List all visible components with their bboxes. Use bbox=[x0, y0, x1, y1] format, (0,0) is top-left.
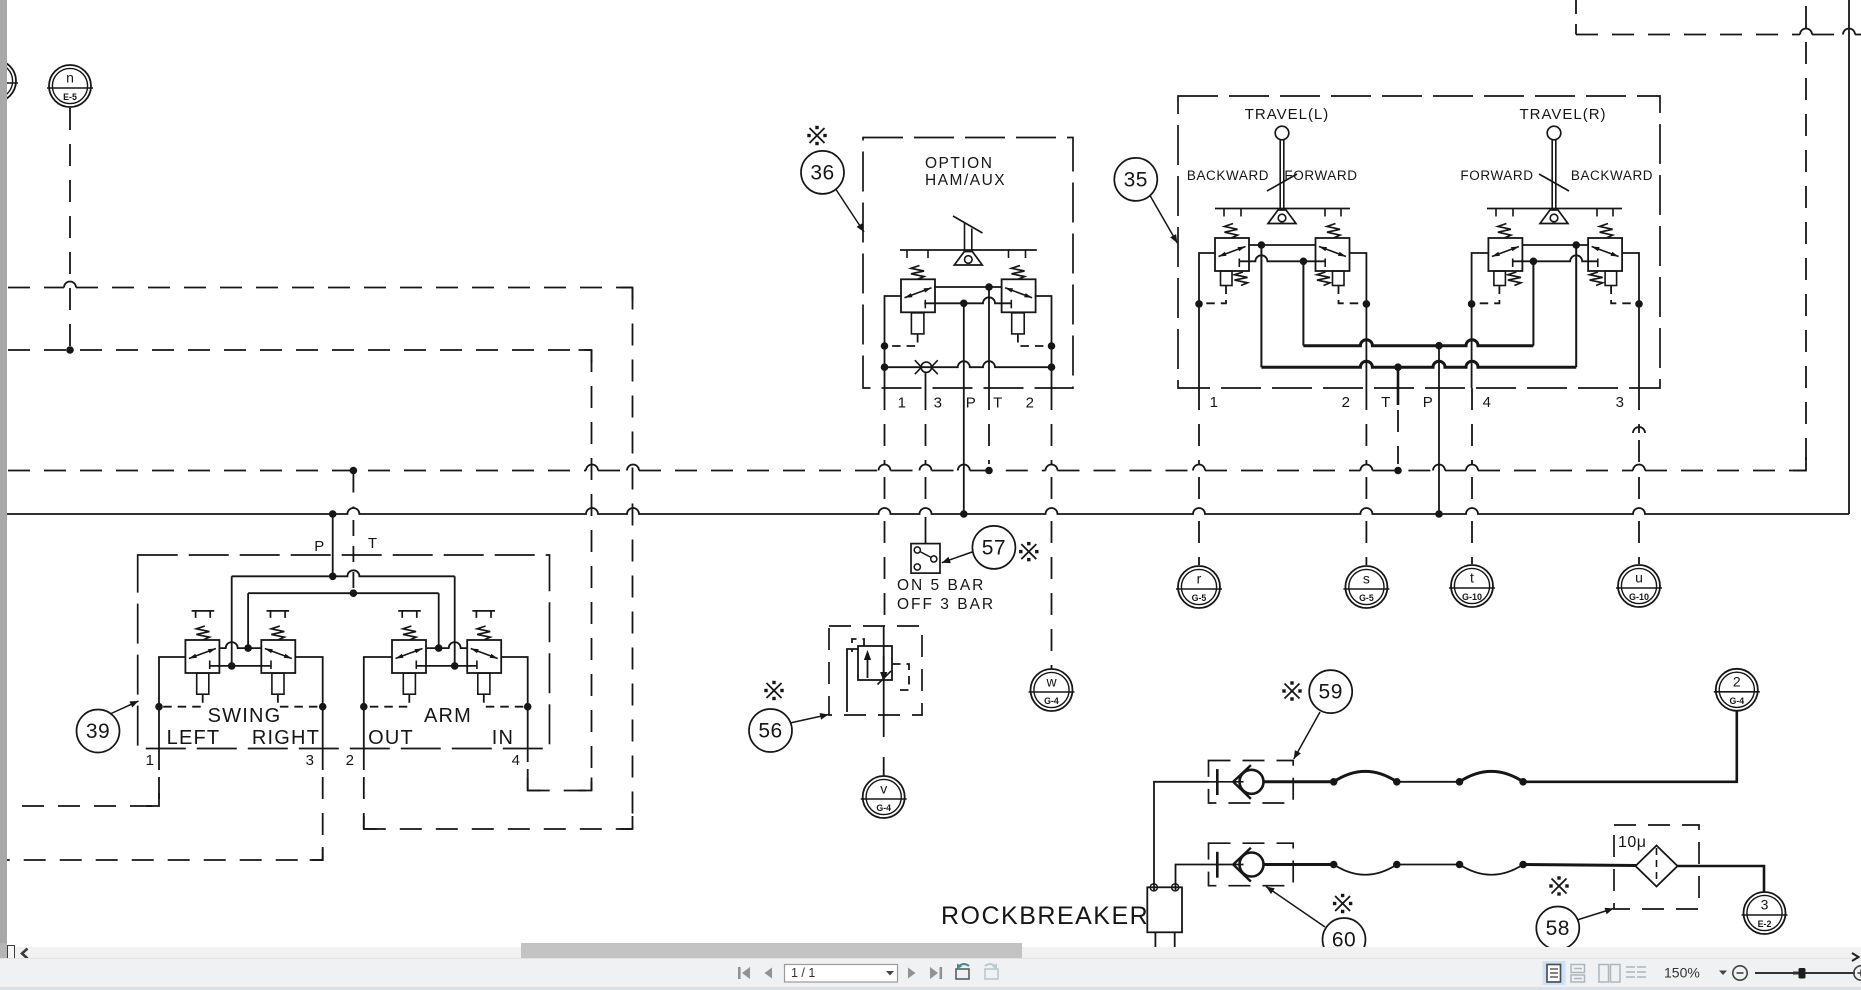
corner elbows on dashed bends bbox=[620, 288, 633, 301]
reducing valve (pair left) bbox=[1215, 238, 1249, 271]
svg-text:39: 39 bbox=[86, 720, 110, 743]
svg-text:10μ: 10μ bbox=[1618, 834, 1647, 851]
wire: dashed link y=829 to ARM port 2 bbox=[364, 828, 633, 830]
connector r / G-5 bbox=[1176, 566, 1222, 608]
wire: port1 dashed drop bbox=[884, 388, 886, 464]
odd hop on port3 drop bbox=[1633, 388, 1645, 433]
reference mark for 56 bbox=[767, 683, 782, 698]
svg-text:t: t bbox=[1470, 570, 1474, 586]
svg-text:4: 4 bbox=[512, 752, 521, 769]
svg-text:G-5: G-5 bbox=[1192, 593, 1207, 603]
wire: T leg left bbox=[247, 593, 249, 648]
hose arc bbox=[1334, 771, 1397, 781]
toolbar: two page layout icon bbox=[1599, 965, 1620, 983]
svg-text:59: 59 bbox=[1319, 681, 1343, 704]
filter diamond bbox=[1636, 846, 1678, 887]
reducing valve (pair right) bbox=[467, 640, 501, 673]
reducing valve (pair right) bbox=[1588, 238, 1622, 271]
hose arc bbox=[1334, 865, 1397, 875]
reducing valve unit 56 (dashed enclosure) bbox=[829, 626, 922, 715]
connector w / G-4 bbox=[1029, 669, 1075, 711]
wire: solid bus riser to top edge x=1849 bbox=[1848, 0, 1850, 514]
reference mark for 58 bbox=[1552, 879, 1567, 894]
svg-text:1 / 1: 1 / 1 bbox=[791, 966, 815, 980]
hose line upper (to connector 2/G-4) bbox=[1264, 780, 1334, 783]
wire: dashed stub x=1576 top bbox=[1575, 0, 1577, 35]
wire: dashed pilot-drain bus y=470.5 bbox=[8, 470, 586, 472]
connector v / G-4 bbox=[861, 776, 907, 818]
svg-text:v: v bbox=[880, 781, 887, 797]
svg-text:3: 3 bbox=[306, 752, 315, 769]
svg-text:ON 5 BAR: ON 5 BAR bbox=[897, 577, 985, 594]
reducing valve (pair left) bbox=[185, 640, 219, 673]
reference mark for 60 bbox=[1335, 896, 1350, 911]
viewer chrome: scrollbar corner block bbox=[0, 943, 7, 958]
reference mark for 57 bbox=[1021, 544, 1036, 559]
option check valve line bbox=[885, 361, 1052, 367]
svg-text:56: 56 bbox=[758, 720, 782, 743]
leader 35 bbox=[1150, 196, 1177, 244]
svg-text:TRAVEL(R): TRAVEL(R) bbox=[1519, 106, 1606, 123]
leader 36 bbox=[836, 190, 864, 233]
option right reducing valve bbox=[1012, 266, 1025, 280]
wire: dashed link y=790.5 to ARM port 4 bbox=[528, 790, 592, 792]
wire: top dashed line y=34.5 (hops risers) bbox=[1576, 34, 1800, 36]
svg-text:T: T bbox=[1381, 394, 1391, 411]
wire: filter outlet to connector 3 bbox=[1678, 866, 1765, 892]
callout circle 57 bbox=[972, 526, 1015, 569]
option valve plungers and pilot lines bbox=[911, 313, 924, 334]
wire: drop to valve 56 bbox=[884, 521, 886, 626]
svg-text:G-4: G-4 bbox=[1729, 696, 1744, 706]
svg-text:2: 2 bbox=[1026, 395, 1035, 412]
svg-text:G-4: G-4 bbox=[1044, 696, 1059, 706]
viewer chrome: bottom toolbar bbox=[0, 958, 1861, 988]
reference mark for 36 bbox=[810, 128, 825, 143]
valve 56 left feedback loop bbox=[847, 649, 858, 712]
travel T gallery (thick) bbox=[1260, 245, 1262, 367]
option interconnect (T) line with junction bbox=[934, 286, 1002, 288]
svg-text:OFF 3 BAR: OFF 3 BAR bbox=[897, 596, 995, 613]
svg-text:RIGHT: RIGHT bbox=[252, 727, 320, 749]
hose arc bbox=[1460, 771, 1524, 781]
leader 59 bbox=[1294, 712, 1320, 759]
svg-text:ROCKBREAKER: ROCKBREAKER bbox=[941, 902, 1149, 930]
wire: travel T dashed drop to bus dot bbox=[1397, 410, 1399, 464]
wire H1: dashed line to swing/arm port2 riser (hop over n line) bbox=[8, 287, 64, 289]
rockbreaker chisel line 1 bbox=[1154, 932, 1156, 947]
wire: solid pilot-pressure bus y=514 bbox=[7, 508, 1849, 514]
svg-text:2: 2 bbox=[1733, 673, 1741, 689]
callout circle 39 bbox=[77, 710, 120, 753]
callout circle 60 bbox=[1323, 918, 1366, 961]
callout circle 36 bbox=[801, 151, 844, 194]
svg-text:1: 1 bbox=[1210, 394, 1219, 411]
toolbar: zoom slider bbox=[1755, 972, 1855, 974]
toolbar: single page layout (active) bbox=[1543, 961, 1566, 985]
option stub (P) line with hop over T riser bbox=[924, 297, 1011, 303]
svg-text:35: 35 bbox=[1124, 168, 1148, 191]
wire: port3 dashed route to left bbox=[7, 777, 323, 860]
wire: drop to pressure switch 57 bbox=[925, 517, 927, 544]
svg-text:57: 57 bbox=[982, 536, 1006, 559]
reference mark for 59 bbox=[1285, 684, 1300, 699]
svg-text:TRAVEL(L): TRAVEL(L) bbox=[1245, 106, 1330, 123]
wire: option port1 drop bbox=[885, 296, 902, 388]
wire: port3 drop bbox=[322, 707, 324, 770]
viewer chrome: small page box at left of scrollbar bbox=[7, 945, 15, 964]
svg-text:P: P bbox=[1423, 394, 1434, 411]
leader 56 bbox=[790, 715, 829, 724]
toolbar: two page continuous icon bbox=[1626, 967, 1646, 977]
wire: port4 drop bbox=[527, 707, 529, 762]
svg-text:G-4: G-4 bbox=[876, 803, 891, 813]
toolbar: page number box bbox=[785, 965, 898, 983]
joystick TRAVEL(R) bbox=[1487, 208, 1622, 210]
connector circle (partial, left edge) bbox=[0, 60, 18, 102]
filter 58 (10u) bbox=[1614, 825, 1699, 909]
wire: P leg left bbox=[231, 576, 233, 666]
valve 56 body bbox=[858, 646, 892, 680]
callout circle 56 bbox=[749, 709, 792, 752]
wire: 56 to connector v bbox=[883, 715, 885, 750]
leader 58 bbox=[1577, 909, 1614, 921]
svg-text:SWING: SWING bbox=[208, 705, 282, 727]
svg-text:LEFT: LEFT bbox=[167, 727, 221, 749]
leader 60 bbox=[1266, 887, 1325, 928]
quick coupler 59 bbox=[1209, 761, 1294, 804]
viewer chrome: collapse mark top-right of toolbar bbox=[1850, 952, 1861, 962]
wire H2: dashed line (dot at n drop) to riser x=591.5 bbox=[8, 349, 592, 351]
svg-text:IN: IN bbox=[492, 727, 514, 749]
viewer chrome: scrollbar thumb bbox=[521, 943, 1022, 959]
toolbar: previous page button bbox=[765, 968, 773, 979]
wire: to connector 2 bbox=[1523, 711, 1737, 782]
wire: hose to filter bbox=[1523, 865, 1636, 866]
pilot line right valve bbox=[1018, 334, 1052, 346]
toolbar: last page button bbox=[930, 967, 942, 979]
wire: option port3 stub bbox=[925, 372, 927, 388]
svg-text:G-10: G-10 bbox=[1629, 592, 1649, 602]
slash across valve 56 bbox=[878, 671, 892, 685]
toolbar: next page button bbox=[908, 968, 916, 979]
wire: supply to coupler 60 bbox=[1176, 865, 1209, 891]
viewer chrome: collapse chevron bbox=[19, 947, 30, 960]
reducing valve (pair right) bbox=[261, 640, 295, 673]
wire: T leg right bbox=[438, 593, 440, 648]
rockbreaker body bbox=[1147, 887, 1182, 932]
connector u / G-10 bbox=[1616, 565, 1662, 607]
svg-text:150%: 150% bbox=[1664, 965, 1700, 981]
wire: dashed riser x=1806 bbox=[1805, 6, 1807, 471]
svg-text:BACKWARD: BACKWARD bbox=[1571, 168, 1653, 183]
connector 2 / G-4 bbox=[1714, 669, 1760, 711]
svg-text:3: 3 bbox=[1616, 394, 1625, 411]
svg-text:1: 1 bbox=[146, 752, 155, 769]
callout circle 58 bbox=[1536, 907, 1579, 950]
wire: riser x=591.5 from H2 down bbox=[591, 350, 593, 791]
valve 56 right pilot bbox=[892, 664, 909, 690]
svg-text:T: T bbox=[993, 395, 1003, 412]
svg-text:OUT: OUT bbox=[368, 727, 414, 749]
reducing valve (pair right) bbox=[1316, 238, 1350, 271]
callout circle 59 bbox=[1309, 670, 1352, 713]
toolbar: zoom out button bbox=[1733, 966, 1747, 980]
svg-text:E-5: E-5 bbox=[63, 92, 77, 102]
rockbreaker chisel line 2 bbox=[1174, 932, 1176, 947]
svg-text:s: s bbox=[1363, 571, 1370, 587]
P manifold bbox=[232, 570, 455, 576]
pressure switch 57 bbox=[911, 544, 940, 574]
viewer chrome: bottom status strip bbox=[0, 987, 1861, 990]
svg-text:BACKWARD: BACKWARD bbox=[1187, 168, 1269, 183]
wire: riser x=632.5 from H1 down bbox=[632, 288, 634, 830]
wire: port1 drop bbox=[158, 707, 160, 770]
svg-text:r: r bbox=[1197, 571, 1202, 587]
quick coupler 60 bbox=[1209, 843, 1294, 886]
viewer chrome: left gutter strip bbox=[0, 0, 7, 944]
svg-text:ARM: ARM bbox=[424, 705, 472, 727]
valve 56 internal arrows bbox=[867, 654, 869, 678]
toolbar: rotate ccw icon bbox=[956, 964, 969, 980]
reducing valve (pair left) bbox=[1488, 238, 1522, 271]
pilot valve block 35: TRAVEL dashed enclosure bbox=[1178, 96, 1660, 388]
wire: travel port1 dashed drop bbox=[1198, 388, 1200, 464]
svg-text:T: T bbox=[368, 535, 378, 552]
connector 3 / E-2 bbox=[1742, 892, 1788, 934]
svg-text:P: P bbox=[314, 538, 325, 555]
wire: P drop from solid bus into block bbox=[332, 514, 334, 576]
wire: T drop from dashed bus bbox=[352, 471, 354, 509]
T manifold bbox=[248, 592, 439, 594]
svg-text:w: w bbox=[1045, 674, 1057, 690]
wire: travel port3 dashed drop bbox=[1638, 440, 1640, 464]
svg-text:58: 58 bbox=[1546, 917, 1570, 940]
svg-text:HAM/AUX: HAM/AUX bbox=[925, 172, 1006, 189]
wire: T dashed drop to bus dot bbox=[988, 388, 990, 464]
reducing valve (pair left) bbox=[392, 640, 426, 673]
wire: option P drop to solid bus bbox=[963, 303, 965, 514]
svg-text:OPTION: OPTION bbox=[925, 155, 993, 172]
svg-text:P: P bbox=[966, 395, 977, 412]
wire: port2 dashed drop bbox=[1051, 388, 1053, 464]
svg-text:1: 1 bbox=[898, 395, 907, 412]
wire: option port2 drop bbox=[1035, 296, 1052, 388]
svg-text:3: 3 bbox=[934, 395, 943, 412]
toolbar: continuous layout icon bbox=[1571, 965, 1585, 983]
wire: port4 dashed drop to y=790.5 link bbox=[527, 769, 529, 791]
toolbar: zoom in button (clipped) bbox=[1854, 966, 1861, 980]
hose line lower (to filter 58) bbox=[1264, 863, 1334, 866]
connector n / E-5 bbox=[47, 65, 93, 107]
wire: drop to connector w bbox=[1051, 521, 1053, 669]
joystick TRAVEL(L) bbox=[1215, 208, 1350, 210]
svg-text:E-2: E-2 bbox=[1758, 919, 1772, 929]
wire: travel port2 dashed drop bbox=[1365, 388, 1367, 464]
leader 57 bbox=[942, 552, 974, 563]
wire: port2 dashed drop to y=829 link bbox=[363, 777, 365, 829]
svg-text:2: 2 bbox=[1342, 394, 1351, 411]
wire: supply to coupler 59 bbox=[1154, 782, 1209, 890]
wire: travel P drop to solid bus bbox=[1438, 346, 1440, 514]
pilot valve block 36: OPTION HAM/AUX dashed enclosure bbox=[863, 138, 1073, 389]
wire: travel T port stub bbox=[1397, 367, 1400, 405]
svg-text:FORWARD: FORWARD bbox=[1460, 168, 1533, 183]
toolbar: first page button bbox=[738, 967, 750, 979]
svg-text:G-5: G-5 bbox=[1359, 593, 1374, 603]
svg-text:G-10: G-10 bbox=[1462, 592, 1482, 602]
wire: P leg right bbox=[454, 576, 456, 666]
connector t / G-10 bbox=[1449, 565, 1495, 607]
joystick lever of option valve bbox=[900, 249, 1037, 251]
connector s / G-5 bbox=[1343, 566, 1389, 608]
pilot valve block 39: SWING/ARM enclosure bbox=[138, 555, 550, 749]
wire: option T drop bbox=[988, 287, 990, 388]
viewer chrome: horizontal scrollbar track bbox=[0, 947, 1861, 958]
option left reducing valve bbox=[911, 266, 924, 280]
pilot line left valve bbox=[885, 334, 918, 346]
wire: n/E-5 drop to H2 bbox=[69, 108, 71, 350]
hose arc bbox=[1460, 865, 1524, 875]
svg-text:n: n bbox=[66, 70, 74, 86]
wire: port3 dashed drop bbox=[925, 388, 927, 464]
wire: travel port4 dashed drop bbox=[1471, 388, 1473, 464]
leader 39 bbox=[110, 701, 139, 714]
svg-text:2: 2 bbox=[346, 752, 355, 769]
svg-text:36: 36 bbox=[810, 161, 834, 184]
svg-text:4: 4 bbox=[1483, 394, 1492, 411]
wire: port1 dashed route to left bbox=[20, 777, 159, 806]
toolbar: rotate cw icon (disabled) bbox=[985, 964, 998, 980]
callout circle 35 bbox=[1114, 158, 1157, 201]
travel P gallery (thick) bbox=[1302, 261, 1304, 345]
svg-text:3: 3 bbox=[1761, 897, 1769, 913]
svg-text:u: u bbox=[1635, 570, 1643, 586]
wire: line through valve 56 bbox=[883, 626, 885, 715]
wire: port2 drop bbox=[363, 707, 365, 770]
